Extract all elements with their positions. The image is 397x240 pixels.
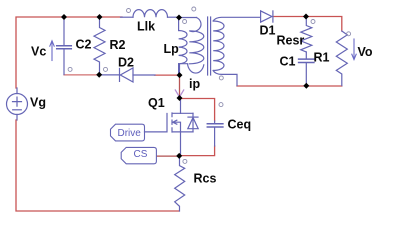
transformer secondary winding [213, 17, 260, 85]
junction node output bottom [303, 83, 309, 89]
svg-text:ip: ip [189, 77, 200, 91]
wire Ceq bottom to source [181, 146, 215, 156]
svg-text:Vc: Vc [31, 45, 46, 59]
wire node to drain [179, 76, 181, 97]
junction node D1 cathode [303, 14, 309, 20]
pin circle Vo top [347, 32, 351, 36]
svg-text:CS: CS [134, 149, 148, 160]
svg-text:Drive: Drive [118, 128, 142, 139]
pin circle Ceq top [219, 103, 223, 107]
svg-text:R2: R2 [110, 38, 126, 52]
svg-text:Ceq: Ceq [228, 118, 252, 132]
wire clamp bottom rail [64, 74, 98, 76]
junction node Q1 drain [177, 95, 183, 101]
junction node R2 top [97, 14, 103, 20]
transistor Q1 (MOSFET with body diode) [145, 99, 199, 156]
pin circle C2 bottom [68, 67, 72, 71]
transformer primary winding [180, 18, 204, 75]
pin circle Lp dot [183, 20, 187, 24]
svg-text:D1: D1 [260, 24, 276, 38]
junction node R2 bottom [96, 72, 102, 78]
pin circle Rcs top [183, 159, 187, 163]
wire secondary bottom rail [237, 85, 342, 87]
CS box [121, 147, 156, 163]
wire CS to source node [157, 155, 177, 157]
wire Vg bottom to bottom rail [16, 120, 179, 211]
pin circle secondary bottom [219, 76, 223, 80]
capacitor C2 [57, 18, 72, 75]
svg-text:Vg: Vg [30, 96, 46, 110]
Drive box [111, 124, 145, 141]
resistor Rcs [175, 158, 185, 212]
svg-text:R1: R1 [314, 51, 330, 65]
resistor Resr [301, 18, 312, 52]
pin circle R2 bottom [104, 67, 108, 71]
resistor R1 [336, 31, 347, 86]
svg-text:Resr: Resr [277, 34, 305, 48]
pin circle Resr top [311, 20, 315, 24]
capacitor C1 [299, 52, 314, 85]
pin circle Llk [127, 9, 131, 13]
junction node Q1 source [176, 153, 182, 159]
svg-text:D2: D2 [118, 56, 134, 70]
current label ip arrow [175, 90, 183, 97]
wire top rail left [16, 17, 122, 88]
wire D1 cathode to output node [274, 17, 342, 32]
transformer core [208, 17, 211, 75]
diode D2 [99, 68, 156, 82]
svg-text:Rcs: Rcs [194, 172, 217, 186]
junction node C2 top [61, 14, 67, 20]
diode D1 [261, 11, 273, 22]
junction node D2 anode [177, 72, 183, 78]
svg-text:C2: C2 [76, 38, 92, 52]
svg-text:C1: C1 [280, 55, 296, 69]
inductor Llk [121, 10, 178, 18]
inductor Lp (magnetizing) [179, 19, 187, 75]
pin circle primary top [192, 7, 196, 11]
svg-text:Llk: Llk [137, 20, 155, 34]
svg-text:Lp: Lp [164, 42, 180, 56]
wire drain to Ceq top [181, 99, 215, 122]
wire D2 anode to node [155, 74, 178, 76]
Vc arrow [50, 41, 54, 61]
resistor R2 [94, 18, 105, 75]
voltage source Vg [7, 88, 28, 120]
junction node Lp top [176, 15, 182, 21]
svg-text:Q1: Q1 [148, 96, 165, 110]
capacitor Ceq [207, 121, 223, 146]
Vo arrow [352, 39, 356, 60]
svg-text:Vo: Vo [358, 45, 373, 59]
